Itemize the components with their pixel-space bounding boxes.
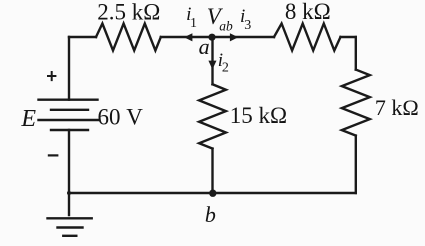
wire middle vertical lower: [211, 149, 213, 193]
node a junction dot: [208, 34, 215, 41]
svg-text:60 V: 60 V: [98, 104, 144, 129]
wire left vertical upper: [68, 37, 70, 100]
wire bottom: [69, 192, 356, 194]
wire top-middle segment: [161, 36, 274, 38]
svg-text:15 kΩ: 15 kΩ: [230, 103, 287, 128]
arrow i1 (points left): [184, 33, 192, 41]
arrow i2 (points down): [208, 61, 216, 70]
svg-text:a: a: [199, 34, 210, 59]
wire right vertical upper: [355, 37, 357, 70]
junction dot left bottom: [67, 191, 71, 195]
resistor 15 kΩ zigzag: [199, 84, 226, 148]
battery E long plate 1: [39, 98, 98, 100]
ground bar 1: [48, 217, 92, 219]
svg-text:1: 1: [190, 16, 197, 31]
resistor 7 kΩ zigzag: [342, 70, 370, 136]
svg-text:ab: ab: [219, 18, 233, 33]
battery E short plate 2: [51, 109, 88, 111]
battery minus sign: [48, 154, 59, 156]
wire top-left segment: [69, 36, 96, 38]
resistor 2.5 kΩ zigzag: [96, 24, 161, 51]
battery E short plate 4: [51, 129, 88, 131]
battery plus sign: [47, 71, 56, 81]
wire left vertical lower: [68, 130, 70, 215]
ground bar 3: [63, 235, 76, 237]
svg-text:b: b: [205, 202, 216, 227]
wire right vertical lower: [355, 136, 357, 193]
ground bar 2: [58, 226, 83, 228]
svg-text:E: E: [20, 106, 36, 132]
svg-text:8 kΩ: 8 kΩ: [285, 0, 331, 24]
arrow i3 (points right): [230, 33, 238, 41]
wire top-right segment: [341, 36, 356, 38]
svg-text:2: 2: [222, 61, 229, 76]
svg-text:7 kΩ: 7 kΩ: [375, 95, 419, 120]
resistor 8 kΩ zigzag: [274, 24, 341, 51]
wire middle vertical upper (i2 branch): [211, 37, 213, 84]
node b junction dot: [209, 190, 216, 197]
svg-text:2.5 kΩ: 2.5 kΩ: [97, 0, 160, 24]
svg-text:3: 3: [244, 18, 251, 33]
battery E long plate 3: [39, 119, 99, 121]
